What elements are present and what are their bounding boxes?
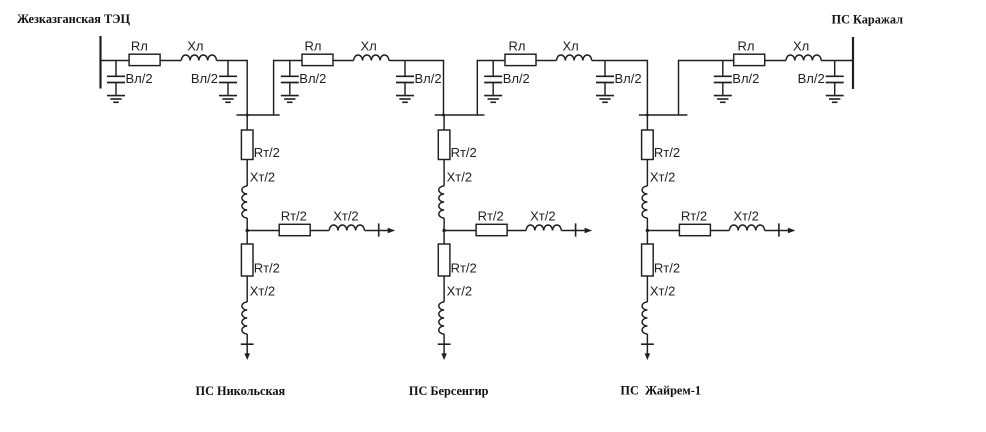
svg-text:Вл/2: Вл/2 <box>299 71 326 86</box>
wire <box>443 218 445 231</box>
wire: section 4 main line, left run <box>679 60 734 62</box>
ground under Вл/2 (section 4 right) <box>826 96 844 103</box>
node: bus bar 2 <box>435 114 485 116</box>
svg-text:Хл: Хл <box>361 39 377 54</box>
wire: transformer branch 3 vertical lead from bus <box>646 115 648 130</box>
arrowhead (branch 3 horizontal output) <box>788 228 796 234</box>
inductor Xт/2 (branch 1 upper) <box>242 170 275 219</box>
capacitor Вл/2 (section 2 right) <box>396 61 414 95</box>
resistor Rл (section 4) <box>734 39 765 66</box>
resistor Rт/2 (branch 2 upper) <box>438 130 476 160</box>
ground under Вл/2 (section 3 left) <box>484 96 502 103</box>
capacitor Вл/2 (section 2 left) <box>281 61 299 95</box>
wire: branch 2 down arrow shaft <box>443 334 445 354</box>
inductor Xл (section 3) <box>557 39 592 61</box>
wire: branch 3 arrow shaft <box>765 230 789 232</box>
inductor Xл (section 1) <box>181 39 216 61</box>
wire: transformer branch 1 vertical lead from bus <box>246 115 248 130</box>
ground under Вл/2 (section 1 left) <box>107 96 125 103</box>
wire <box>246 160 248 187</box>
resistor Rт/2 (branch 1 lower) <box>241 244 279 276</box>
svg-text:Rт/2: Rт/2 <box>451 145 477 160</box>
svg-text:Вл/2: Вл/2 <box>615 71 642 86</box>
svg-text:Вл/2: Вл/2 <box>503 71 530 86</box>
inductor Xт/2 (branch 2 lower) <box>439 284 472 335</box>
resistor Rт/2 (branch 2 lower) <box>438 244 476 276</box>
arrowhead (branch 2 horizontal output) <box>585 228 593 234</box>
arrowhead (branch 2 down output to ПС Берсенгир) <box>441 353 447 360</box>
inductor Xт/2 (branch 1 lower) <box>242 284 275 335</box>
wire <box>507 230 526 232</box>
capacitor Вл/2 (section 3 left) <box>484 61 502 95</box>
tick mark before arrow (branch 1 horizontal) <box>378 223 380 236</box>
node: right terminal bar (ПС Каражал bus) <box>852 37 854 89</box>
svg-text:Вл/2: Вл/2 <box>798 71 825 86</box>
inductor Xт/2 (branch 3 horizontal) <box>729 209 764 231</box>
wire: section 4 between resistor and inductor <box>765 60 786 62</box>
inductor Xт/2 (branch 3 lower) <box>642 284 675 335</box>
tick mark before arrow (branch 3 horizontal) <box>778 223 780 236</box>
svg-text:Rт/2: Rт/2 <box>478 209 504 224</box>
wire: section 2 main line, left run <box>274 60 302 62</box>
wire: section 4 right run <box>821 60 853 62</box>
svg-text:Хл: Хл <box>563 39 579 54</box>
capacitor Вл/2 (section 1 left) <box>107 61 125 95</box>
ground under Вл/2 (section 1 right) <box>219 96 237 103</box>
wire: branch 3 horizontal run <box>647 230 679 232</box>
resistor Rт/2 (branch 1 upper) <box>241 130 279 160</box>
wire <box>310 230 329 232</box>
svg-text:Rт/2: Rт/2 <box>681 209 707 224</box>
wire: branch 2 horizontal run <box>444 230 476 232</box>
wire <box>646 231 648 245</box>
wire: section 1 main line, left run <box>101 60 130 62</box>
wire <box>443 160 445 187</box>
wire <box>246 218 248 231</box>
svg-text:Вл/2: Вл/2 <box>191 71 218 86</box>
inductor Xт/2 (branch 1 horizontal) <box>329 209 364 231</box>
wire: section 3 main line, left run <box>477 60 505 62</box>
wire: branch 3 down arrow shaft <box>646 334 648 354</box>
wire: section 3 between resistor and inductor <box>536 60 557 62</box>
junction dot on bus 3 <box>646 114 649 117</box>
svg-text:Вл/2: Вл/2 <box>126 71 153 86</box>
svg-text:ПС Никольская: ПС Никольская <box>196 384 286 398</box>
resistor Rт/2 (branch 1 horizontal) <box>279 209 310 236</box>
svg-text:Хт/2: Хт/2 <box>733 209 758 224</box>
svg-text:Хл: Хл <box>187 39 203 54</box>
resistor Rл (section 3) <box>505 39 536 66</box>
svg-text:Rт/2: Rт/2 <box>254 145 280 160</box>
wire: riser from bus 1 to next section <box>273 60 275 115</box>
ground under Вл/2 (section 2 left) <box>281 96 299 103</box>
resistor Rл (section 2) <box>302 39 333 66</box>
svg-text:Rт/2: Rт/2 <box>281 209 307 224</box>
inductor Xт/2 (branch 2 upper) <box>439 170 472 219</box>
ground under Вл/2 (section 2 right) <box>396 96 414 103</box>
svg-text:Хт/2: Хт/2 <box>333 209 358 224</box>
resistor Rт/2 (branch 3 upper) <box>642 130 680 160</box>
svg-text:Хт/2: Хт/2 <box>250 170 275 185</box>
wire: drop from main line to bus 2 <box>443 60 445 115</box>
svg-text:ПС Берсенгир: ПС Берсенгир <box>409 384 489 398</box>
wire <box>246 276 248 302</box>
svg-text:Rл: Rл <box>509 39 526 54</box>
node: branch 1 split junction <box>246 229 249 232</box>
arrowhead (branch 3 down output to ПС Жайрем-1) <box>645 353 651 360</box>
svg-text:Хт/2: Хт/2 <box>447 170 472 185</box>
svg-text:Жезказганская ТЭЦ: Жезказганская ТЭЦ <box>17 12 131 26</box>
wire: branch 2 arrow shaft <box>561 230 585 232</box>
svg-text:Хт/2: Хт/2 <box>650 284 675 299</box>
svg-text:Хт/2: Хт/2 <box>250 284 275 299</box>
tick mark before arrow (branch 3 lower) <box>641 343 654 345</box>
wire: riser from bus 3 to next section <box>678 60 680 115</box>
svg-text:Rт/2: Rт/2 <box>254 261 280 276</box>
inductor Xт/2 (branch 2 horizontal) <box>526 209 561 231</box>
ground under Вл/2 (section 4 left) <box>714 96 732 103</box>
arrowhead (branch 1 down output to ПС Никольская) <box>244 353 250 360</box>
wire <box>710 230 729 232</box>
tick mark before arrow (branch 2 lower) <box>438 343 451 345</box>
wire: branch 1 arrow shaft <box>364 230 388 232</box>
svg-text:ПС Каражал: ПС Каражал <box>832 13 904 27</box>
node: bus bar 1 <box>236 114 279 116</box>
wire: riser from bus 2 to next section <box>476 60 478 115</box>
wire: section 2 between resistor and inductor <box>333 60 354 62</box>
resistor Rт/2 (branch 2 horizontal) <box>476 209 507 236</box>
wire: section 1 between resistor and inductor <box>160 60 181 62</box>
capacitor Вл/2 (section 4 left) <box>714 61 732 95</box>
capacitor Вл/2 (section 3 right) <box>596 61 614 95</box>
ground under Вл/2 (section 3 right) <box>596 96 614 103</box>
wire <box>646 160 648 187</box>
svg-text:Rт/2: Rт/2 <box>654 261 680 276</box>
wire <box>646 218 648 231</box>
wire: section 1 right run <box>217 60 248 62</box>
inductor Xт/2 (branch 3 upper) <box>642 170 675 219</box>
wire <box>246 231 248 245</box>
svg-text:Хт/2: Хт/2 <box>650 170 675 185</box>
node: branch 2 split junction <box>442 229 445 232</box>
svg-text:Rл: Rл <box>305 39 322 54</box>
svg-text:Rл: Rл <box>738 39 755 54</box>
svg-text:Вл/2: Вл/2 <box>415 71 442 86</box>
wire: branch 1 horizontal run <box>247 230 279 232</box>
svg-text:Вл/2: Вл/2 <box>732 71 759 86</box>
wire: section 3 right run <box>592 60 648 62</box>
resistor Rт/2 (branch 3 horizontal) <box>679 209 710 236</box>
wire: transformer branch 2 vertical lead from bus <box>443 115 445 130</box>
wire: drop from main line to bus 1 <box>246 60 248 115</box>
svg-text:Хл: Хл <box>793 39 809 54</box>
resistor Rт/2 (branch 3 lower) <box>642 244 680 276</box>
svg-text:Хт/2: Хт/2 <box>530 209 555 224</box>
wire <box>443 231 445 245</box>
wire: section 2 right run <box>389 60 444 62</box>
svg-text:ПС Жайрем-1: ПС Жайрем-1 <box>620 384 701 398</box>
node: left terminal bar (Жезказганская ТЭЦ bus) <box>99 36 101 89</box>
capacitor Вл/2 (section 4 right) <box>826 61 844 95</box>
inductor Xл (section 2) <box>354 39 389 61</box>
junction dot on bus 1 <box>246 114 249 117</box>
svg-text:Rт/2: Rт/2 <box>451 261 477 276</box>
arrowhead (branch 1 horizontal output) <box>388 228 396 234</box>
svg-text:Rл: Rл <box>131 39 148 54</box>
capacitor Вл/2 (section 1 right) <box>219 61 237 95</box>
node: branch 3 split junction <box>646 229 649 232</box>
svg-text:Хт/2: Хт/2 <box>447 284 472 299</box>
resistor Rл (section 1) <box>129 39 160 66</box>
wire <box>443 276 445 302</box>
tick mark before arrow (branch 2 horizontal) <box>575 223 577 236</box>
wire: drop from main line to bus 3 <box>646 60 648 115</box>
svg-text:Rт/2: Rт/2 <box>654 145 680 160</box>
wire: branch 1 down arrow shaft <box>246 334 248 354</box>
node: bus bar 3 <box>639 114 688 116</box>
tick mark before arrow (branch 1 lower) <box>241 343 254 345</box>
junction dot on bus 2 <box>442 114 445 117</box>
wire <box>646 276 648 302</box>
inductor Xл (section 4) <box>786 39 821 61</box>
